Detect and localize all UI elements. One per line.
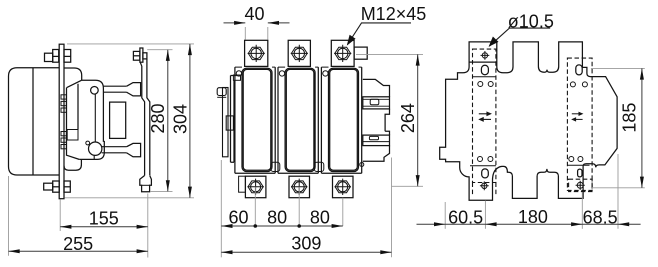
upper rail lug [127,83,141,96]
top bolt head [45,53,53,61]
top bolt left nut [53,50,59,63]
leader dia10.5 [489,28,550,46]
bracket housing top [64,68,82,80]
arrows 180 [485,222,496,226]
right aux clip bottom [369,136,378,139]
armature rectangle [110,102,126,138]
ext 155 left [59,200,61,232]
module 3 hinge circle [323,71,328,76]
ext 40 left [244,27,246,40]
right aux band bottom midline [363,141,390,143]
svg-text:ø10.5: ø10.5 [508,11,554,31]
top terminal block 1 [245,40,268,66]
bottom bolt right nut [64,181,70,192]
arrows 60.5 and 68.5 outside [434,222,445,226]
dim line 309 [221,251,391,253]
tab separator line [469,61,497,63]
bottom terminal block 3 [333,176,354,198]
ext 155-255 right [147,194,149,258]
ext 68.5 right [617,154,619,229]
right aux clip top [370,99,379,105]
svg-text:304: 304 [171,104,191,134]
left clip screw [217,88,226,96]
right aux band bottom [363,135,390,146]
contactor body (side) [9,68,60,175]
ext 304 top [67,43,194,45]
mounting hole bottom [480,181,489,190]
module 1 bottom edge [235,172,275,174]
mounting plate [59,44,64,199]
arrows 155 [60,225,71,229]
ext 40 right [267,27,269,40]
bottom pivot circle [89,142,102,155]
module 1 outer slab lines [235,67,275,173]
right aux block bottom [385,131,389,135]
module 2 bottom edge [278,172,318,174]
top terminal bolt 2 [291,45,308,62]
arrow leader M12x45 [347,35,356,46]
arrow leader dia10.5 [489,37,499,47]
housing lower step [64,159,81,170]
coil body [67,84,80,160]
module 1 cover outer [242,68,272,171]
arrows 60-80-80 [221,224,232,228]
module 1 cover inner [243,69,271,170]
dim line 255 [9,250,148,252]
circles pair bottom left [478,157,483,162]
dim line 185 [641,68,643,187]
ext 185 bottom [591,187,645,189]
rail bottom foot inner [142,184,150,186]
svg-text:309: 309 [291,234,321,254]
module 2 shoulder lines [278,66,318,68]
ext 180-68.5 [581,192,583,229]
module 3 outer slab lines [321,67,361,173]
dim line 155 [60,226,148,228]
rear outline [440,42,617,200]
right aux band top lines [363,99,390,106]
ext 280 bottom [150,190,173,192]
dim line 304 [189,44,191,198]
left small square [226,116,233,130]
ext 264 bottom [392,185,424,187]
module 2 cover outer [285,68,315,171]
link rod line [94,94,96,142]
arrows 280 [166,50,170,61]
arrows 264 [416,54,420,65]
dim line 280 [167,50,169,192]
circles pair top right [570,82,575,87]
left slab top step [233,75,240,80]
top terminal block 2 [288,40,310,66]
module 3 cover inner [330,69,358,170]
right aux block top [363,79,390,96]
rail bottom foot [140,176,152,192]
dim line 40 [224,22,290,24]
small screw circle [86,141,90,145]
svg-text:40: 40 [244,4,264,24]
left slab [231,76,238,163]
leader M12x45 [348,23,412,45]
top bolt right nut [64,50,71,63]
ext pole 2 [298,187,300,226]
arrows symbol left [479,112,491,121]
ext 304 bottom [65,197,195,199]
svg-text:60.5: 60.5 [448,208,483,228]
bottom terminal block 2 [289,176,310,198]
ext 60-80-80 left [220,160,222,257]
svg-text:180: 180 [518,207,548,227]
arrows 304 [188,44,192,55]
separator line 3 [470,165,496,167]
right dashed small box [569,179,593,191]
ext pole 3 [342,198,344,226]
circles pair top left [478,82,483,87]
slot top [481,65,488,74]
top terminal bolt 3 [334,45,351,62]
module 3 bottom edge [321,172,361,174]
terminal clip 3 [61,108,66,112]
svg-text:155: 155 [89,208,119,228]
module 2 hinge circle [279,71,284,76]
svg-text:68.5: 68.5 [583,208,618,228]
svg-text:185: 185 [620,103,640,133]
svg-text:280: 280 [148,103,168,133]
top pivot circle [91,87,99,95]
right aux step top [385,109,389,131]
lower cross member [102,147,127,153]
left dashed region [473,49,496,182]
left rail clip strip [223,88,229,157]
module 1 shoulder lines [235,66,275,68]
slot bottom [482,169,489,178]
dashed tails below left region [473,183,496,197]
terminal clip 5 [61,138,66,142]
terminal clip 1 [61,95,66,99]
circles pair bottom right [569,157,574,162]
svg-text:80: 80 [310,208,330,228]
top terminal bolt 1 [248,45,265,62]
bottom bolt head [44,183,53,190]
bottom terminal block 1 [245,176,266,198]
body divider line [32,68,34,175]
terminal clip 2 [61,101,66,105]
arrows symbol right [572,112,583,120]
svg-text:M12×45: M12×45 [361,4,427,24]
bottom terminal bolt 2 [291,179,307,195]
dim line 60.5-180-68.5 [417,223,641,225]
bottom terminal block 1 side tab [239,176,246,192]
module 3 cover outer [329,68,359,171]
ext pole 1 [254,187,256,226]
arrows 255 [9,249,20,253]
mounting hole bottom right [576,181,585,190]
module 2 outer slab lines [278,67,318,173]
slot bottom right [578,169,582,177]
terminal clip 4 [61,132,66,136]
coil top slant [67,80,82,88]
rail top nut [133,51,140,60]
bottom gap piece 1 [271,162,280,171]
left clip line [217,96,226,98]
dots 60-80-80 [254,224,258,228]
mounting hole top [481,51,490,60]
slot top right [576,65,582,75]
ext 280 top [147,49,172,51]
upper cross member [103,86,126,92]
arrows 309 [221,250,232,254]
dim line 264 [417,54,419,186]
arrows 40 [234,21,245,25]
ext 264 top [356,53,423,55]
bottom gap piece 2 [314,162,324,171]
small block right of block 3 [354,47,367,59]
lower rail lug [127,143,141,156]
bottom terminal bolt 3 [335,179,351,195]
svg-text:255: 255 [63,234,93,254]
ext 60.5 left [444,202,446,229]
pivot stem [93,155,95,159]
right aux step bottom [363,146,390,162]
ext 309 right [391,158,393,258]
svg-text:80: 80 [267,208,287,228]
bottom bolt left nut [53,181,60,192]
svg-text:60: 60 [228,208,248,228]
right aux band top [363,97,390,109]
module 3 shoulder lines [321,66,361,68]
arrows 185 [640,68,644,79]
module 1 hinge circle [236,71,241,76]
svg-text:264: 264 [398,103,418,133]
pivot housing [79,141,104,160]
top terminal block 3 [331,40,354,66]
rail strip [140,59,150,176]
rail top plate [140,48,143,62]
module3 corner screw [360,163,364,167]
module 2 cover inner [286,69,314,170]
ext 185 top [591,67,645,69]
dim line 60-80-80 [221,225,342,227]
right dashed region [567,58,592,190]
ext 255 left [8,176,10,256]
terminal clip 6 [61,145,66,149]
separator line 2 [473,76,496,78]
ext 60.5-180 [484,201,486,229]
rail top square [143,53,147,59]
bracket member corner [82,80,104,142]
bottom terminal bolt 1 [247,179,263,195]
separator line right [567,164,589,166]
coil lower block [67,130,78,141]
